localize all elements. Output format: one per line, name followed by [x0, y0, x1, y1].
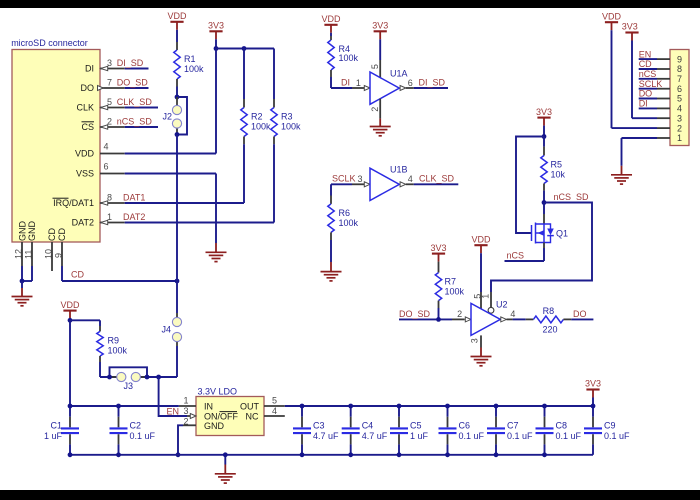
- resistor R2 100k: [241, 49, 271, 204]
- svg-text:5: 5: [272, 396, 277, 406]
- svg-text:4: 4: [272, 406, 277, 416]
- junction EN branch: [156, 375, 161, 380]
- svg-text:R7: R7: [445, 277, 457, 287]
- resistor R3 100k: [271, 49, 301, 223]
- net CD wire from pin 9 to jumper column: [62, 270, 177, 281]
- svg-text:1: 1: [677, 133, 682, 143]
- LDO pin 2 GND lead: [178, 416, 196, 454]
- U1A pin 2 lead to ground: [370, 99, 380, 127]
- header pin 8 net CD stub: [639, 59, 682, 74]
- svg-text:9: 9: [53, 253, 63, 258]
- resistor R9 100k: [70, 320, 128, 377]
- LDO pin 4 NC stub: [264, 406, 285, 416]
- svg-text:7: 7: [677, 74, 682, 84]
- net SCLK wire into U1B pin 3: [331, 174, 370, 187]
- top letterbox bar: [0, 0, 700, 8]
- capacitor C4: [342, 404, 388, 458]
- resistor R4 100k: [328, 33, 359, 88]
- U1A output net DI_SD: [400, 77, 448, 90]
- power symbol VDD bottom left: [60, 300, 80, 319]
- junction VDD / R9 branch: [68, 318, 73, 323]
- svg-text:DI: DI: [341, 77, 350, 87]
- svg-text:10: 10: [43, 249, 53, 259]
- svg-text:DO_SD: DO_SD: [117, 77, 149, 87]
- svg-text:3: 3: [107, 58, 112, 68]
- ground symbol below VSS drop: [206, 243, 227, 262]
- svg-text:12: 12: [13, 249, 23, 259]
- microSD pin 7 DO stub / net DO_SD: [81, 77, 149, 93]
- svg-text:C5: C5: [410, 421, 422, 431]
- power symbol 3V3 above U1A pin 5: [372, 21, 388, 40]
- junction R7 / DO_SD: [436, 317, 441, 322]
- svg-text:VDD: VDD: [471, 234, 491, 244]
- ground symbol below U2: [471, 357, 492, 366]
- svg-text:VDD: VDD: [60, 300, 80, 310]
- resistor R5 10k: [541, 137, 566, 203]
- svg-text:DI_SD: DI_SD: [419, 77, 446, 87]
- net DO wire from R8: [571, 309, 593, 320]
- ground symbol below U1A: [370, 127, 391, 136]
- svg-text:10k: 10k: [551, 170, 566, 180]
- junction ground rail at LDO ground: [223, 452, 228, 457]
- microSD pin 11 GND lead: [22, 221, 37, 282]
- svg-text:220: 220: [542, 324, 557, 334]
- svg-text:EN: EN: [639, 49, 652, 59]
- U1B output net CLK_SD: [400, 174, 458, 187]
- svg-text:OUT: OUT: [240, 402, 260, 412]
- microSD pin 4 VDD wire to 3V3 riser: [75, 141, 216, 158]
- U2 output wire to R8: [501, 309, 526, 322]
- header pin 5 net DO stub: [639, 89, 682, 104]
- 3.3V LDO regulator U3: [196, 386, 264, 435]
- header pin 1 wire to ground: [622, 133, 683, 166]
- bottom letterbox bar: [0, 490, 700, 500]
- wire gate bracket to Q1: [516, 137, 544, 234]
- svg-text:NC: NC: [246, 411, 259, 421]
- svg-text:0.1 uF: 0.1 uF: [459, 431, 485, 441]
- svg-text:DI: DI: [85, 64, 94, 74]
- microSD pin 9 CD lead: [53, 228, 67, 281]
- svg-text:7: 7: [107, 78, 112, 88]
- svg-text:4: 4: [408, 174, 413, 184]
- resistor R8 220: [526, 306, 572, 334]
- svg-text:C2: C2: [130, 421, 142, 431]
- svg-text:DAT1: DAT1: [123, 192, 145, 202]
- svg-text:GND: GND: [27, 221, 37, 242]
- svg-text:100k: 100k: [281, 122, 301, 132]
- svg-text:11: 11: [23, 250, 33, 259]
- net DO_SD wire into U2 pin 2: [399, 309, 471, 322]
- svg-text:VDD: VDD: [602, 11, 622, 21]
- jumper J3: [110, 367, 148, 391]
- svg-text:DI: DI: [639, 99, 648, 109]
- svg-text:100k: 100k: [108, 345, 128, 355]
- svg-text:C4: C4: [362, 421, 374, 431]
- svg-text:SCLK: SCLK: [639, 79, 663, 89]
- svg-text:100k: 100k: [251, 122, 271, 132]
- header pin 4 net DI stub: [639, 99, 682, 114]
- power symbol 3V3 bottom right: [585, 379, 601, 406]
- svg-text:100k: 100k: [445, 287, 465, 297]
- junction J3 right: [145, 375, 150, 380]
- svg-text:Q1: Q1: [556, 229, 568, 239]
- junction LDO GND / bottom rail: [176, 452, 181, 457]
- svg-text:GND: GND: [204, 421, 225, 431]
- svg-text:3V3: 3V3: [622, 22, 638, 32]
- svg-text:R5: R5: [551, 160, 563, 170]
- jumper J2: [162, 97, 187, 135]
- microSD pin 3 DI stub / net DI_SD: [85, 58, 149, 74]
- svg-text:C9: C9: [604, 421, 616, 431]
- svg-text:0.1 uF: 0.1 uF: [556, 431, 582, 441]
- svg-text:4: 4: [510, 309, 515, 319]
- LDO pin 1 IN lead: [179, 396, 196, 406]
- ground symbol below LDO: [215, 455, 236, 483]
- ground symbol below R6: [321, 262, 342, 281]
- op-amp buffer U2: [471, 299, 508, 335]
- svg-text:4: 4: [677, 104, 682, 114]
- wire 3V3 riser down to pin 4: [215, 49, 217, 154]
- svg-text:R8: R8: [543, 306, 555, 316]
- svg-text:5: 5: [107, 97, 112, 107]
- LDO pin 5 OUT lead: [264, 396, 285, 406]
- U2 pin 5 lead: [472, 253, 482, 309]
- svg-text:CD: CD: [71, 270, 84, 280]
- svg-text:GND: GND: [17, 221, 27, 242]
- svg-text:4.7 uF: 4.7 uF: [313, 431, 339, 441]
- net nCS wire from Q1 source: [505, 243, 545, 262]
- power symbol 3V3 above card VDD: [208, 21, 224, 49]
- svg-text:VDD: VDD: [75, 149, 95, 159]
- svg-text:3V3: 3V3: [430, 243, 446, 253]
- svg-text:3: 3: [183, 406, 188, 416]
- svg-text:DO_SD: DO_SD: [399, 309, 431, 319]
- header pin 2 wire from VDD: [612, 30, 683, 133]
- svg-text:C3: C3: [313, 421, 325, 431]
- svg-text:0.1 uF: 0.1 uF: [130, 431, 156, 441]
- svg-text:6: 6: [408, 78, 413, 88]
- svg-text:C1: C1: [50, 421, 62, 431]
- svg-text:DAT2: DAT2: [123, 212, 145, 222]
- svg-text:6: 6: [677, 84, 682, 94]
- svg-text:DAT2: DAT2: [72, 218, 94, 228]
- capacitor C8: [536, 404, 582, 458]
- power symbol VDD above R1: [167, 11, 187, 30]
- microSD pin 10 CD lead (n.c.): [43, 228, 57, 271]
- breakout header connector box: [670, 50, 689, 146]
- capacitor C2: [110, 404, 156, 458]
- ground symbol below microSD connector: [12, 281, 33, 306]
- svg-text:SCLK: SCLK: [332, 174, 356, 184]
- svg-text:VDD: VDD: [167, 11, 187, 21]
- jumper J4: [161, 281, 181, 377]
- svg-text:3V3: 3V3: [536, 107, 552, 117]
- svg-text:3.3V LDO: 3.3V LDO: [198, 386, 238, 396]
- capacitor C7: [487, 404, 533, 458]
- resistor R1 100k: [174, 30, 204, 97]
- svg-text:CLK: CLK: [76, 103, 94, 113]
- svg-text:3: 3: [677, 113, 682, 123]
- svg-text:J2: J2: [162, 112, 172, 122]
- wire J2 bottom down to CD junction: [176, 135, 178, 282]
- svg-text:U1B: U1B: [390, 165, 408, 175]
- microSD pin 6 VSS wire to ground drop: [76, 161, 216, 178]
- ground symbol below header pin 1: [611, 166, 632, 184]
- svg-text:9: 9: [677, 54, 682, 64]
- capacitor C5: [390, 404, 429, 458]
- resistor R6 100k: [328, 184, 359, 262]
- svg-text:8: 8: [677, 64, 682, 74]
- svg-text:DI_SD: DI_SD: [117, 58, 144, 68]
- wire J3 right pad to J4 column: [136, 376, 177, 378]
- svg-text:U1A: U1A: [390, 69, 408, 79]
- svg-text:R6: R6: [339, 208, 351, 218]
- microSD pin 1 DAT2 wire: [72, 212, 274, 228]
- svg-text:2: 2: [457, 309, 462, 319]
- junction CD / J4 column: [175, 279, 180, 284]
- svg-text:EN: EN: [167, 406, 180, 416]
- svg-text:100k: 100k: [339, 218, 359, 228]
- transistor Q1 MOSFET: [532, 203, 569, 244]
- svg-text:C8: C8: [556, 421, 568, 431]
- junction J2 bottom: [175, 132, 180, 137]
- svg-text:3: 3: [469, 338, 479, 343]
- svg-text:0.1 uF: 0.1 uF: [507, 431, 533, 441]
- resistor R7 100k: [435, 262, 464, 320]
- svg-text:8: 8: [107, 193, 112, 203]
- svg-text:CLK_SD: CLK_SD: [419, 174, 455, 184]
- junction R1 / J2 top: [175, 95, 180, 100]
- header pin 3 wire from 3V3: [632, 41, 682, 124]
- svg-text:3V3: 3V3: [372, 21, 388, 31]
- svg-text:100k: 100k: [339, 53, 359, 63]
- svg-text:IRQ/DAT1: IRQ/DAT1: [53, 198, 94, 208]
- net nCS_SD wire to U2 pin 1: [491, 192, 592, 292]
- junction R2 top: [242, 46, 247, 51]
- svg-text:C7: C7: [507, 421, 519, 431]
- svg-text:CD: CD: [57, 228, 67, 241]
- svg-text:R3: R3: [281, 112, 293, 122]
- op-amp buffer U1B: [370, 165, 408, 201]
- microSD pin 12 GND lead: [13, 221, 27, 282]
- svg-text:1: 1: [107, 212, 112, 222]
- U1A pin 5 lead: [370, 39, 380, 77]
- op-amp buffer U1A: [370, 69, 408, 105]
- microSD pin 5 CLK stub / net CLK_SD: [76, 97, 158, 113]
- header pin 6 net SCLK stub: [639, 79, 682, 94]
- svg-text:2: 2: [677, 123, 682, 133]
- wire VSS drop to ground: [215, 174, 217, 244]
- svg-text:J4: J4: [161, 325, 171, 335]
- power symbol VDD above R4: [321, 14, 341, 33]
- wire output rail LDO OUT to 3V3: [285, 405, 593, 407]
- header pin 7 net nCS stub: [639, 69, 682, 84]
- svg-text:4.7 uF: 4.7 uF: [362, 431, 388, 441]
- svg-text:VSS: VSS: [76, 169, 94, 179]
- svg-text:1 uF: 1 uF: [410, 431, 429, 441]
- svg-text:DO: DO: [639, 89, 653, 99]
- svg-text:1: 1: [183, 396, 188, 406]
- power symbol 3V3 above R7: [430, 243, 446, 262]
- power symbol VDD for header pin 2: [602, 11, 622, 30]
- LDO pin 3 ON/OFF lead with EN label: [167, 406, 197, 419]
- junction R5 / nCS_SD / Q1 drain: [542, 200, 547, 205]
- power symbol VDD above U2 pin 5: [471, 234, 491, 253]
- capacitor C6: [439, 404, 485, 458]
- wire bottom ground rail: [70, 454, 593, 456]
- svg-text:2: 2: [107, 117, 112, 127]
- power symbol 3V3 above R5: [536, 107, 552, 137]
- junction J3 left: [107, 375, 112, 380]
- microSD pin 8 IRQ/DAT1 wire: [53, 192, 245, 208]
- svg-text:100k: 100k: [184, 64, 204, 74]
- power symbol 3V3 for header pin 3: [622, 22, 639, 41]
- svg-text:nCS_SD: nCS_SD: [554, 192, 590, 202]
- svg-text:5: 5: [370, 64, 380, 69]
- svg-text:DO: DO: [573, 309, 587, 319]
- junction GND pins: [20, 279, 25, 284]
- svg-text:DO: DO: [81, 83, 95, 93]
- capacitor C3: [293, 404, 339, 458]
- svg-text:nCS: nCS: [507, 250, 525, 260]
- svg-text:IN: IN: [204, 402, 213, 412]
- svg-text:2: 2: [183, 416, 188, 426]
- svg-text:nCS_SD: nCS_SD: [117, 116, 153, 126]
- svg-text:CS: CS: [81, 122, 94, 132]
- svg-text:ON/OFF: ON/OFF: [204, 411, 238, 421]
- capacitor C1: [44, 404, 79, 458]
- svg-text:6: 6: [103, 161, 108, 171]
- svg-text:0.1 uF: 0.1 uF: [604, 431, 630, 441]
- svg-text:5: 5: [677, 94, 682, 104]
- svg-text:nCS: nCS: [639, 69, 657, 79]
- U2 pin 1 lead with inverting bubble: [481, 292, 494, 313]
- capacitor C9: [584, 404, 630, 455]
- svg-text:C6: C6: [459, 421, 471, 431]
- svg-text:R9: R9: [108, 335, 120, 345]
- U2 pin 3 lead to ground: [469, 335, 481, 356]
- wire 3V3 to R2 R3 tops: [216, 48, 274, 50]
- svg-text:1 uF: 1 uF: [44, 431, 63, 441]
- svg-text:J3: J3: [124, 381, 134, 391]
- svg-text:3V3: 3V3: [208, 21, 224, 31]
- wire EN drop to LDO pin 3: [159, 377, 187, 416]
- svg-text:CLK_SD: CLK_SD: [117, 97, 153, 107]
- microSD connector box J1: [11, 38, 100, 242]
- svg-text:1: 1: [356, 78, 361, 88]
- wire input rail VDD to LDO IN: [70, 405, 179, 407]
- wire R9 bottom to J3 left pad: [100, 376, 121, 378]
- svg-text:4: 4: [103, 141, 108, 151]
- svg-text:R2: R2: [251, 112, 263, 122]
- svg-text:3V3: 3V3: [585, 379, 601, 389]
- header pin 9 net EN stub: [639, 49, 682, 64]
- svg-text:1: 1: [481, 294, 491, 299]
- svg-text:U2: U2: [496, 299, 508, 309]
- svg-text:microSD connector: microSD connector: [11, 38, 88, 48]
- svg-text:R1: R1: [184, 54, 196, 64]
- junction 3V3 / pin4 riser: [214, 46, 219, 51]
- wire VDD column down to C1 rail: [69, 320, 71, 406]
- svg-text:3: 3: [357, 174, 362, 184]
- svg-text:VDD: VDD: [321, 14, 341, 24]
- svg-text:CD: CD: [639, 59, 652, 69]
- junction 3V3 / R5 / gate bracket: [542, 134, 547, 139]
- net DI wire into U1A pin 1: [331, 77, 370, 90]
- svg-text:2: 2: [370, 107, 380, 112]
- svg-text:CD: CD: [47, 228, 57, 241]
- microSD pin 2 CS stub / net nCS_SD: [81, 116, 158, 132]
